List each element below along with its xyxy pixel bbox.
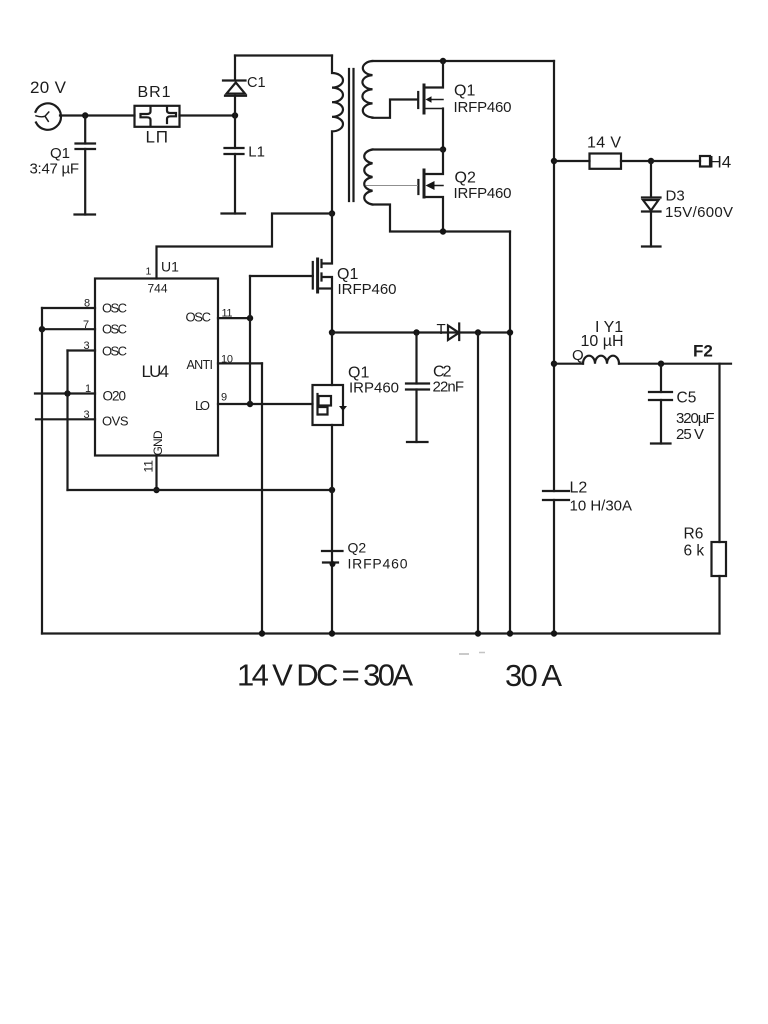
svg-text:9: 9 [221, 392, 227, 404]
svg-text:H4: H4 [710, 152, 732, 171]
svg-text:IRFP460: IRFP460 [338, 281, 397, 298]
wire bottom rail [42, 632, 720, 634]
svg-text:22nF: 22nF [433, 379, 465, 396]
junction node [232, 112, 238, 118]
pin wire 3 OVS [36, 418, 95, 420]
svg-text:GND: GND [151, 430, 165, 455]
wire OSC3 drop [66, 351, 68, 491]
svg-text:10 H/30A: 10 H/30A [570, 498, 633, 515]
wire source to node [60, 114, 135, 116]
wire resistor to node [621, 160, 651, 162]
capacitor C2 [406, 333, 429, 443]
wire top rail [235, 54, 332, 56]
igbt module Q1 IRP460 [313, 333, 348, 426]
wire snubber rail [332, 331, 510, 333]
connector H4 [700, 156, 710, 167]
junction node [658, 361, 664, 367]
svg-text:14 V DC = 30A: 14 V DC = 30A [237, 658, 413, 693]
svg-text:R6: R6 [684, 526, 704, 543]
pin wire 9 LO [218, 403, 313, 405]
wire secondary top rail [373, 60, 555, 62]
junction node [551, 630, 557, 636]
svg-text:14 V: 14 V [587, 135, 621, 152]
svg-text:OVS: OVS [102, 414, 129, 429]
svg-text:6 k: 6 k [684, 543, 705, 560]
svg-text:OSC: OSC [102, 300, 127, 315]
ground [75, 213, 96, 215]
ground [651, 442, 671, 444]
svg-text:11: 11 [222, 308, 233, 320]
svg-text:10: 10 [221, 353, 233, 365]
svg-text:OSC: OSC [102, 343, 127, 358]
svg-text:Q2: Q2 [455, 170, 476, 187]
wire node to H4 [651, 160, 700, 162]
svg-text:L2: L2 [570, 480, 588, 497]
scan noise [459, 653, 485, 655]
diode C1 [223, 56, 246, 116]
svg-text:320µF: 320µF [676, 410, 715, 427]
wire module to gnd [331, 425, 333, 634]
svg-text:L1: L1 [248, 144, 265, 161]
ground [642, 245, 661, 247]
svg-text:U1: U1 [161, 258, 179, 274]
svg-text:7: 7 [83, 319, 89, 331]
svg-text:LO: LO [195, 398, 210, 413]
transformer primary [332, 56, 343, 214]
mosfet Q2 [366, 150, 443, 232]
svg-text:11: 11 [142, 460, 156, 473]
svg-text:D3: D3 [666, 188, 685, 205]
svg-text:IRFP460: IRFP460 [454, 185, 512, 202]
junction node [153, 487, 159, 493]
ground [407, 441, 428, 443]
junction node [329, 487, 335, 493]
svg-text:F2: F2 [693, 342, 713, 361]
junction node [507, 630, 513, 636]
AC source V1 [36, 103, 62, 129]
svg-text:10 µH: 10 µH [581, 333, 624, 350]
svg-text:15V/600V: 15V/600V [665, 204, 733, 221]
wire ANTI drop [261, 363, 263, 633]
resistor 14 V [590, 154, 622, 169]
wire gate bus [249, 276, 251, 404]
svg-text:Q2: Q2 [348, 540, 367, 556]
junction node [475, 329, 481, 335]
mosfet Q1 mid [250, 214, 332, 333]
svg-text:25 V: 25 V [676, 426, 704, 443]
wire left bus [41, 308, 43, 634]
capacitor L2 [543, 491, 569, 634]
junction node [39, 326, 45, 332]
wire TN drop [477, 333, 479, 634]
svg-text:IRP460: IRP460 [349, 380, 399, 397]
junction node [259, 630, 265, 636]
wire secondary to Q2 drain [373, 148, 444, 150]
junction node [247, 315, 253, 321]
svg-text:20 V: 20 V [30, 78, 67, 97]
junction node [648, 158, 654, 164]
pin wire 8 [42, 307, 95, 309]
junction node [329, 210, 335, 216]
wire secondary bottom loop [373, 205, 511, 232]
svg-text:30 A: 30 A [505, 658, 562, 693]
svg-text:Q1: Q1 [454, 83, 475, 100]
svg-text:OSC: OSC [186, 309, 212, 324]
svg-text:8: 8 [84, 298, 90, 310]
capacitor C5 [649, 364, 672, 444]
junction node [551, 361, 557, 367]
junction node [551, 158, 557, 164]
svg-text:BR1: BR1 [138, 84, 171, 101]
transformer secondary upper [362, 61, 372, 118]
wire BR1 to node C1 [180, 114, 236, 116]
wire right rail upper [553, 61, 555, 491]
junction node [440, 58, 446, 64]
wire F2 drop to R6 [718, 364, 720, 542]
svg-text:3: 3 [84, 340, 90, 352]
pin wire 3 [68, 349, 96, 351]
svg-text:1: 1 [85, 383, 91, 395]
pin wire 7 [42, 328, 95, 330]
junction node [475, 630, 481, 636]
svg-text:3:47 µF: 3:47 µF [30, 161, 80, 178]
svg-text:OSC: OSC [102, 322, 127, 337]
junction node [82, 112, 88, 118]
ground [222, 212, 246, 214]
svg-text:LU4: LU4 [142, 362, 170, 381]
diode D3 [642, 161, 661, 247]
pin wire 11 OSC [218, 317, 250, 319]
svg-text:O20: O20 [103, 389, 127, 404]
svg-text:ANTI: ANTI [187, 358, 214, 372]
pin wire GND [155, 456, 157, 491]
mosfet Q2 bottom [322, 551, 343, 567]
svg-text:T: T [437, 321, 446, 338]
capacitor L1 [225, 116, 244, 214]
pin wire 10 ANTI [218, 362, 262, 364]
wire primary to U1 pin1 [157, 214, 333, 279]
wire to 14V resistor [554, 160, 590, 162]
junction node [440, 228, 446, 234]
svg-text:1: 1 [146, 266, 152, 278]
svg-text:LΠ: LΠ [146, 128, 169, 147]
bridge rectifier BR1 [135, 106, 180, 127]
junction node [440, 146, 446, 152]
diode TN [448, 324, 459, 341]
svg-text:C1: C1 [247, 75, 266, 91]
svg-text:Q1: Q1 [50, 145, 70, 162]
wire R6 to bottom rail [718, 576, 720, 634]
IC U1 body [95, 279, 218, 456]
inductor Y1 [554, 356, 731, 364]
junction node [329, 329, 335, 335]
svg-text:744: 744 [148, 282, 168, 296]
svg-text:IRFP460: IRFP460 [454, 99, 512, 116]
mosfet Q1 [418, 61, 443, 150]
wire right drop [509, 232, 511, 634]
transformer core [349, 69, 354, 201]
wire gnd net [68, 489, 333, 491]
pin wire 1 O20 [35, 392, 95, 394]
svg-text:IRFP460: IRFP460 [348, 555, 408, 571]
capacitor Q1 [76, 116, 96, 215]
junction node [329, 630, 335, 636]
svg-text:C5: C5 [677, 390, 697, 407]
junction node [247, 401, 253, 407]
junction node [413, 329, 419, 335]
junction node [64, 390, 70, 396]
svg-text:3: 3 [84, 409, 90, 421]
resistor R6 [712, 542, 727, 576]
wire gate loop Q1 [373, 100, 418, 118]
junction node [507, 329, 513, 335]
transformer secondary lower [364, 150, 372, 205]
